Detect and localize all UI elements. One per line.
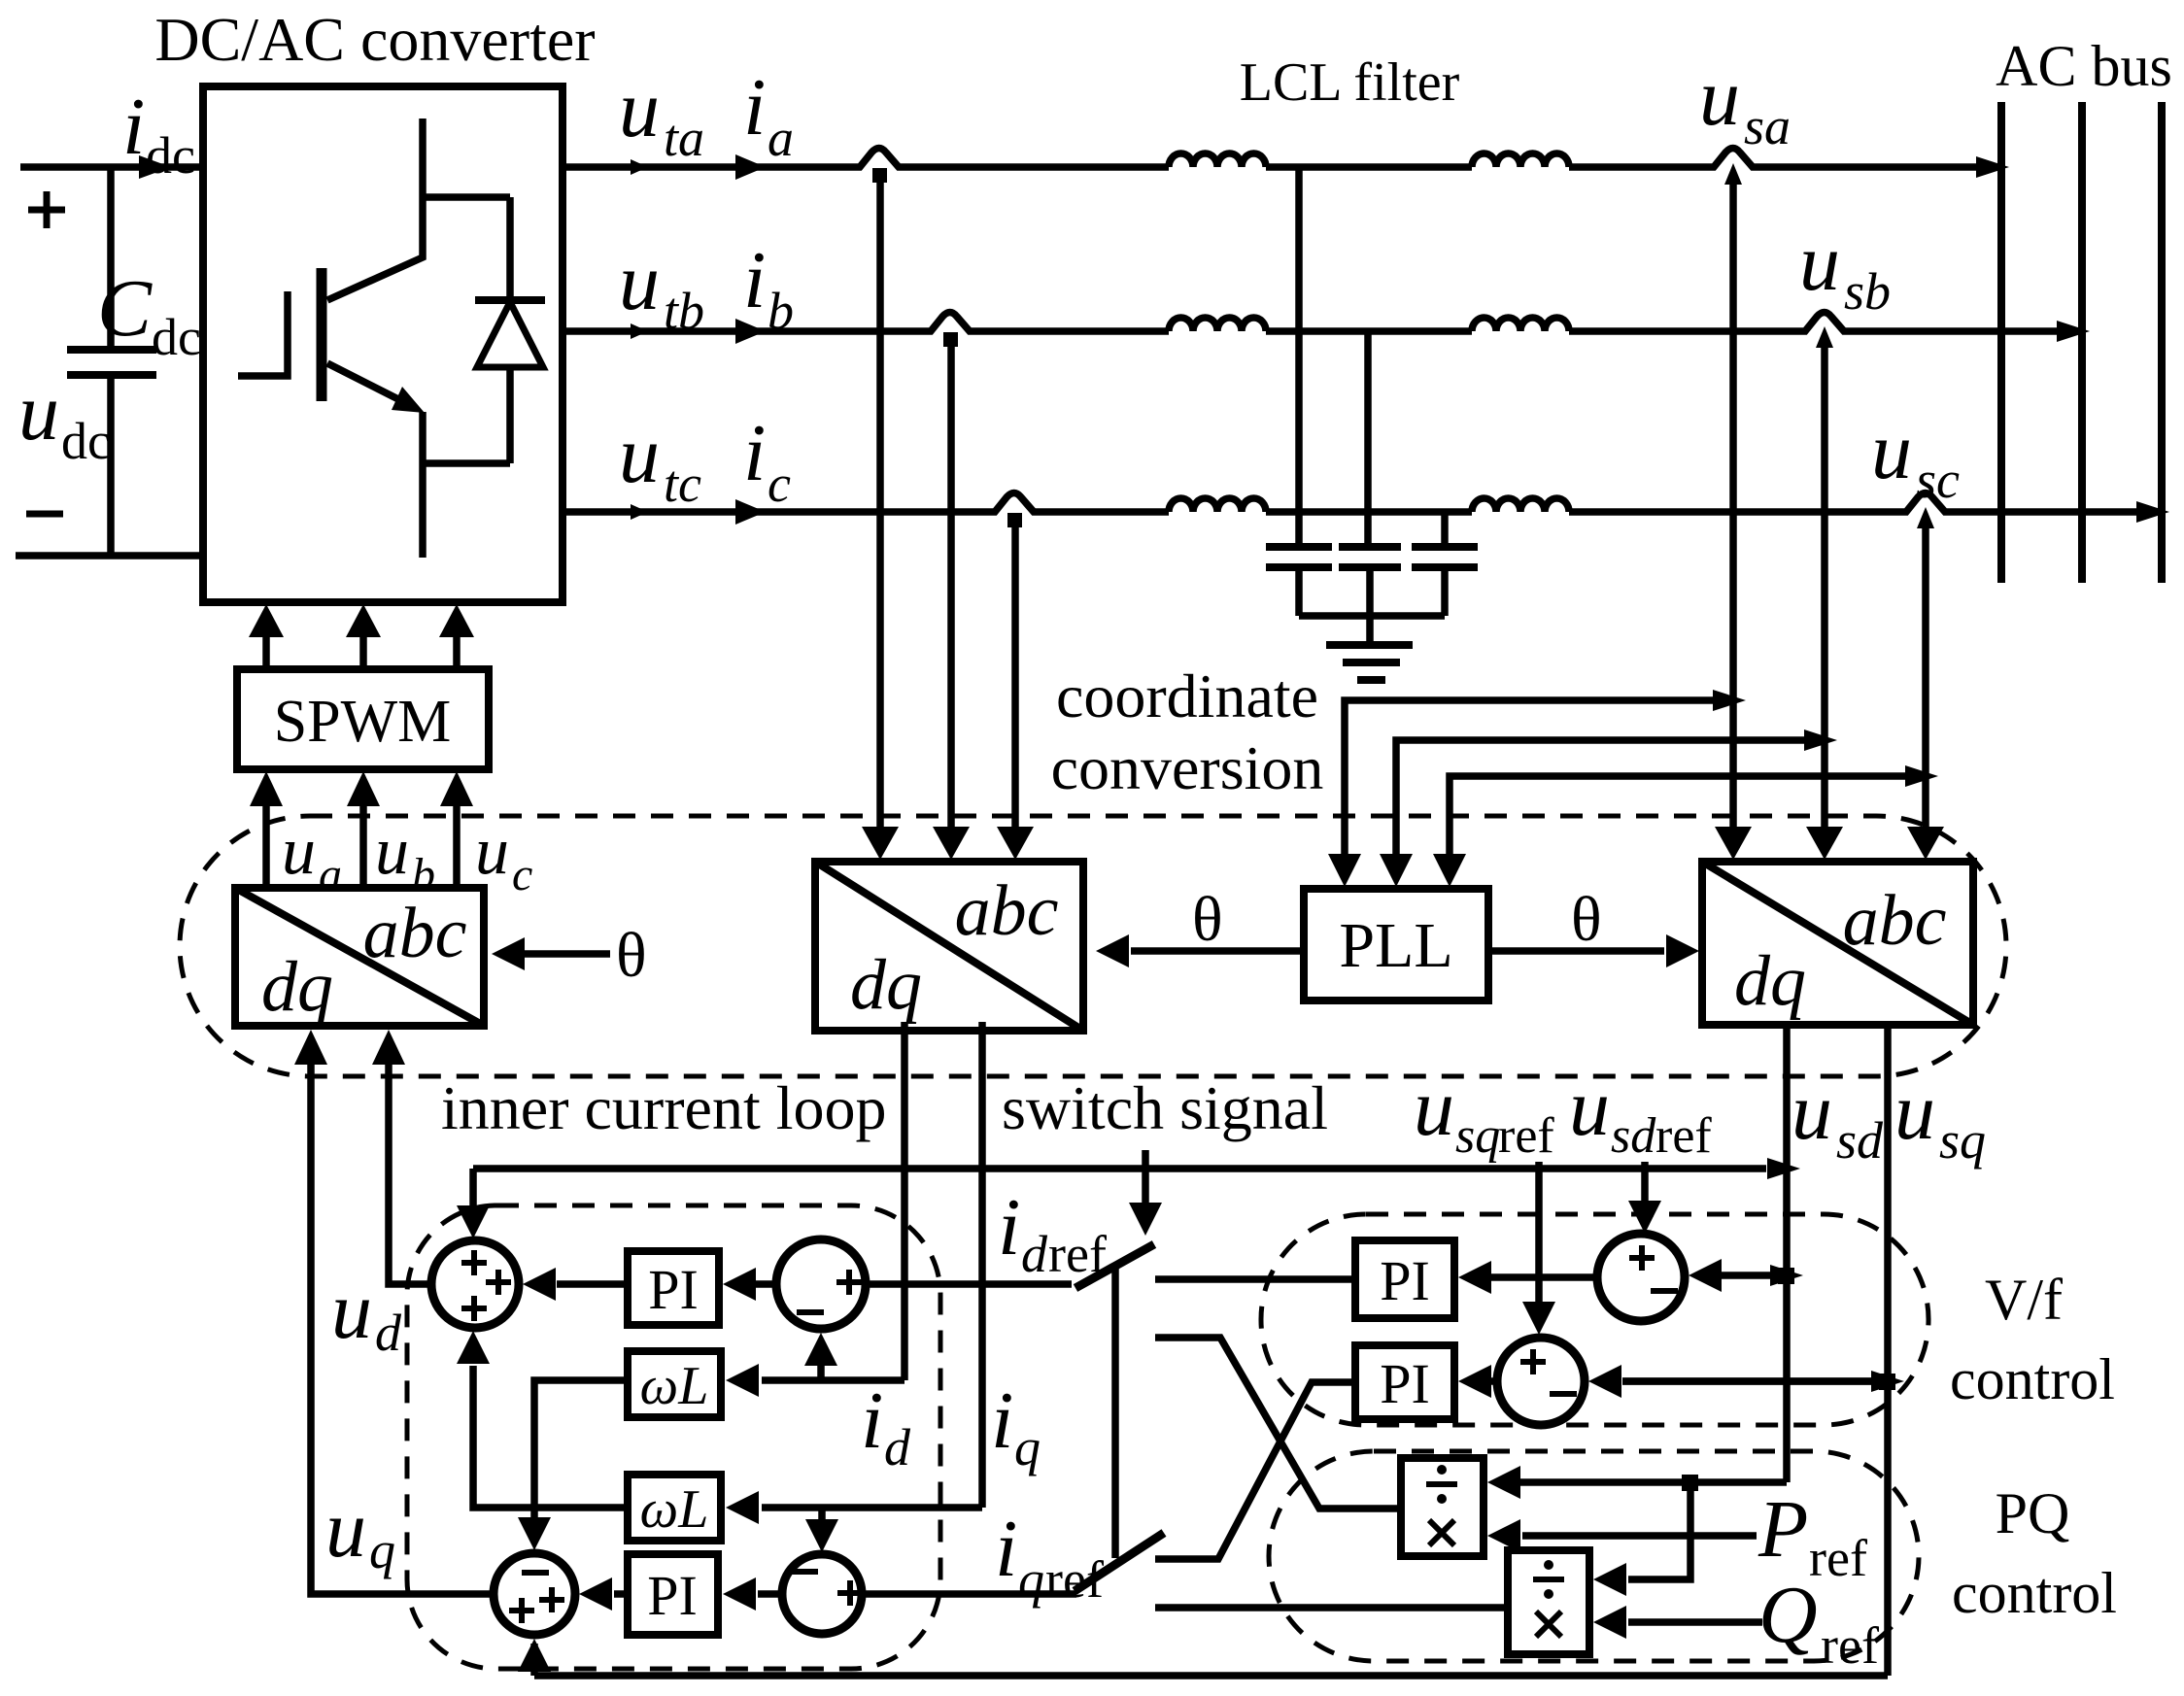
svg-text:ωL: ωL xyxy=(640,1479,709,1540)
svg-text:θ: θ xyxy=(616,920,647,991)
svg-text:ta: ta xyxy=(664,109,704,167)
svg-text:control: control xyxy=(1952,1561,2117,1625)
svg-text:C: C xyxy=(97,263,153,354)
svg-text:ref: ref xyxy=(1498,1108,1554,1164)
svg-text:i: i xyxy=(991,1375,1013,1466)
svg-text:sq: sq xyxy=(1939,1111,1986,1170)
svg-text:ref: ref xyxy=(1045,1550,1104,1609)
svg-text:d: d xyxy=(884,1418,911,1476)
svg-text:c: c xyxy=(512,849,532,900)
svg-text:LCL filter: LCL filter xyxy=(1240,52,1460,113)
svg-text:PQ: PQ xyxy=(1996,1481,2070,1545)
svg-text:abc: abc xyxy=(955,871,1059,951)
svg-text:i: i xyxy=(861,1375,883,1466)
svg-text:dq: dq xyxy=(261,947,333,1027)
svg-text:i: i xyxy=(998,1182,1020,1272)
svg-text:u: u xyxy=(619,64,660,154)
svg-text:sb: sb xyxy=(1844,262,1891,321)
svg-text:ωL: ωL xyxy=(640,1356,709,1416)
svg-text:conversion: conversion xyxy=(1051,733,1324,802)
svg-text:u: u xyxy=(1569,1063,1610,1153)
svg-text:sd: sd xyxy=(1836,1111,1884,1170)
svg-text:tb: tb xyxy=(664,282,704,340)
svg-text:i: i xyxy=(122,82,145,172)
svg-text:P: P xyxy=(1757,1484,1808,1575)
svg-text:coordinate: coordinate xyxy=(1056,661,1318,730)
svg-text:SPWM: SPWM xyxy=(274,689,452,755)
svg-text:b: b xyxy=(412,849,435,900)
svg-text:θ: θ xyxy=(1192,884,1223,955)
svg-text:abc: abc xyxy=(1843,881,1947,961)
svg-text:u: u xyxy=(331,1266,372,1356)
svg-text:inner current loop: inner current loop xyxy=(441,1073,887,1142)
svg-text:q: q xyxy=(369,1521,395,1579)
svg-text:c: c xyxy=(768,455,791,513)
svg-text:sd: sd xyxy=(1611,1108,1656,1164)
svg-text:PI: PI xyxy=(1380,1249,1430,1312)
svg-text:u: u xyxy=(619,410,660,500)
svg-text:Q: Q xyxy=(1758,1570,1818,1660)
svg-text:u: u xyxy=(619,237,660,327)
svg-text:ref: ref xyxy=(1655,1108,1712,1164)
svg-text:ref: ref xyxy=(1821,1616,1879,1675)
svg-text:θ: θ xyxy=(1571,884,1602,955)
svg-text:abc: abc xyxy=(363,894,467,973)
svg-text:i: i xyxy=(743,235,766,325)
svg-text:u: u xyxy=(1871,406,1912,496)
svg-text:i: i xyxy=(743,62,766,153)
svg-text:control: control xyxy=(1950,1347,2115,1411)
svg-text:u: u xyxy=(1799,218,1840,308)
svg-text:dc: dc xyxy=(61,412,111,470)
svg-text:a: a xyxy=(319,849,342,900)
svg-text:b: b xyxy=(768,282,794,340)
svg-text:a: a xyxy=(768,109,794,167)
svg-text:q: q xyxy=(1014,1418,1041,1476)
svg-text:PI: PI xyxy=(1380,1352,1430,1415)
svg-text:dc: dc xyxy=(152,308,201,366)
svg-text:sc: sc xyxy=(1916,451,1960,509)
svg-text:sa: sa xyxy=(1744,97,1791,155)
svg-text:sq: sq xyxy=(1455,1108,1500,1164)
svg-text:d: d xyxy=(1021,1225,1048,1283)
svg-text:u: u xyxy=(475,814,509,889)
svg-text:i: i xyxy=(743,408,766,498)
svg-text:u: u xyxy=(1894,1067,1935,1157)
svg-text:tc: tc xyxy=(664,455,701,513)
svg-text:PLL: PLL xyxy=(1339,910,1452,981)
svg-text:dc: dc xyxy=(146,126,195,185)
svg-text:V/f: V/f xyxy=(1985,1268,2063,1332)
svg-text:PI: PI xyxy=(647,1564,698,1627)
svg-text:u: u xyxy=(18,367,59,458)
svg-text:d: d xyxy=(375,1304,402,1362)
svg-text:AC bus: AC bus xyxy=(1996,34,2172,98)
svg-text:i: i xyxy=(995,1504,1017,1594)
svg-text:dq: dq xyxy=(850,945,922,1025)
svg-text:PI: PI xyxy=(648,1258,699,1321)
svg-text:q: q xyxy=(1018,1550,1044,1609)
svg-text:ref: ref xyxy=(1048,1225,1107,1283)
svg-text:DC/AC converter: DC/AC converter xyxy=(154,5,595,74)
svg-text:u: u xyxy=(1414,1063,1454,1153)
svg-text:dq: dq xyxy=(1734,941,1806,1021)
svg-text:u: u xyxy=(375,814,409,889)
svg-text:u: u xyxy=(1792,1067,1832,1157)
svg-text:ref: ref xyxy=(1809,1529,1867,1587)
svg-text:u: u xyxy=(1699,52,1740,143)
svg-text:switch signal: switch signal xyxy=(1002,1073,1328,1142)
svg-text:u: u xyxy=(282,814,316,889)
svg-text:u: u xyxy=(325,1484,366,1575)
